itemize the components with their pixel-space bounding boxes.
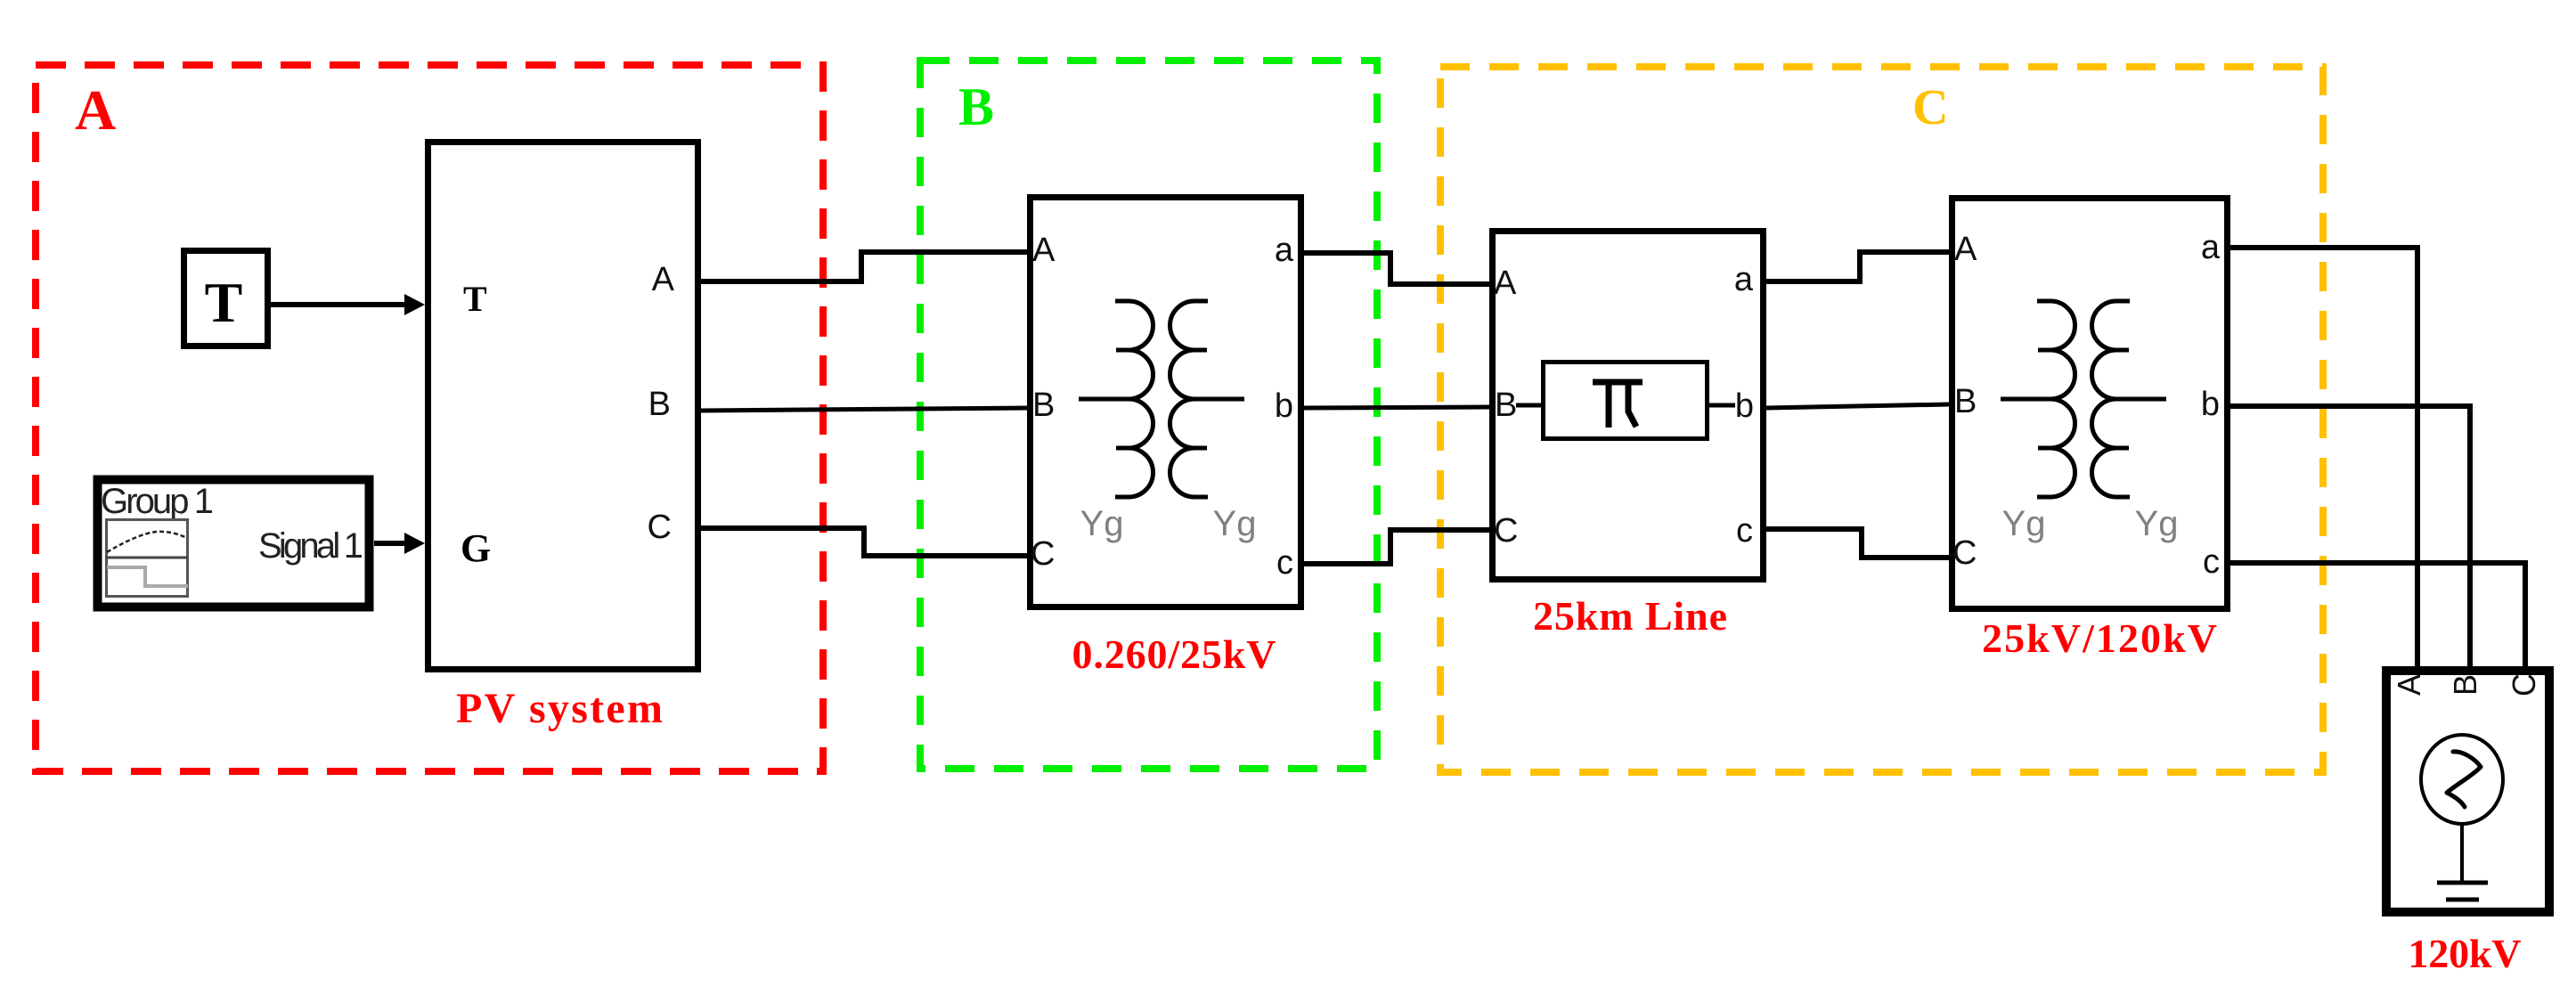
svg-text:A: A: [1494, 265, 1517, 302]
wire transformer2 c to source C: [2230, 563, 2525, 672]
wire Signal 1 to PV system G input: [374, 541, 410, 546]
svg-text:b: b: [1275, 387, 1293, 425]
wire PV A to transformer1 A: [700, 252, 1027, 281]
svg-text:B: B: [648, 386, 671, 423]
transformer2 secondary winding cusp ticks: [2116, 350, 2129, 448]
svg-text:Yg: Yg: [1080, 504, 1124, 543]
svg-text:a: a: [1275, 232, 1294, 269]
zone B dashed green box: [920, 61, 1377, 769]
arrowhead at PV T input: [404, 294, 425, 315]
svg-text:b: b: [1735, 387, 1754, 425]
pi symbol: [1593, 382, 1643, 428]
svg-text:B: B: [1495, 387, 1517, 424]
svg-text:B: B: [1954, 383, 1977, 420]
wire line c to transformer2 C: [1766, 529, 1949, 558]
signal builder thumbnail step trace: [107, 567, 188, 586]
svg-text:G: G: [461, 526, 491, 570]
25km line block: [1493, 232, 1764, 580]
svg-text:A: A: [1032, 232, 1056, 269]
svg-text:B: B: [1032, 387, 1055, 424]
svg-text:25kV/120kV: 25kV/120kV: [1982, 615, 2217, 661]
120kV source block: [2386, 671, 2549, 912]
transformer1 block 0.260/25kV: [1031, 198, 1301, 607]
svg-text:C: C: [648, 509, 672, 546]
svg-text:C: C: [1912, 80, 1948, 135]
wire transformer2 b to source B: [2230, 406, 2470, 672]
AC source sine squiggle: [2447, 752, 2481, 807]
svg-text:A: A: [1954, 231, 1977, 268]
svg-text:T: T: [463, 279, 487, 319]
signal builder block Group 1: [98, 480, 370, 607]
svg-text:Yg: Yg: [1213, 504, 1257, 543]
pi section inner box: [1544, 363, 1708, 439]
svg-text:C: C: [2506, 673, 2542, 697]
transformer2 primary center lead: [2001, 397, 2050, 402]
signal builder thumbnail dashed curve trace: [107, 532, 187, 552]
wire transformer2 a to source A: [2230, 248, 2417, 672]
svg-text:c: c: [2203, 543, 2220, 581]
transformer1 primary winding: [1115, 301, 1153, 497]
wire line a to transformer2 A: [1766, 252, 1949, 281]
transformer2 block 25kV/120kV: [1952, 199, 2228, 609]
transformer1 secondary winding cusp ticks: [1194, 350, 1207, 448]
svg-text:A: A: [652, 261, 675, 298]
svg-text:0.260/25kV: 0.260/25kV: [1072, 631, 1276, 677]
ground bar 2: [2446, 898, 2479, 902]
svg-text:120kV: 120kV: [2409, 931, 2522, 976]
svg-text:Yg: Yg: [2135, 504, 2179, 543]
wire transformer1 b to line B: [1304, 407, 1489, 408]
svg-text:A: A: [2391, 674, 2427, 696]
zone A dashed red box: [36, 65, 823, 771]
arrowhead at PV G input: [404, 533, 425, 554]
wire transformer1 a to line A: [1304, 253, 1489, 284]
constant block T: [184, 251, 268, 346]
transformer1 secondary winding: [1170, 301, 1208, 497]
transformer1 primary winding cusp ticks: [1116, 350, 1129, 448]
wire PV C to transformer1 C: [700, 528, 1027, 556]
svg-text:C: C: [1952, 534, 1977, 572]
svg-text:Yg: Yg: [2002, 504, 2046, 543]
zone C dashed orange box: [1440, 67, 2323, 772]
wire line b to transformer2 B: [1766, 404, 1949, 408]
transformer2 primary winding: [2037, 301, 2075, 497]
wire PV B to transformer1 B: [700, 408, 1027, 411]
svg-text:A: A: [75, 78, 116, 142]
svg-text:Group 1: Group 1: [101, 482, 214, 521]
transformer2 secondary winding: [2091, 301, 2130, 497]
svg-text:B: B: [958, 77, 994, 136]
signal builder thumbnail divider: [105, 557, 188, 559]
ground bar 1: [2437, 881, 2488, 885]
svg-text:PV system: PV system: [456, 685, 663, 732]
signal builder thumbnail frame: [107, 520, 188, 597]
svg-text:c: c: [1276, 544, 1293, 582]
svg-text:C: C: [1031, 535, 1055, 573]
pi section left stub: [1516, 403, 1541, 408]
ground stem: [2460, 824, 2464, 883]
wire transformer1 c to line C: [1304, 530, 1489, 564]
transformer1 secondary center lead: [1194, 397, 1244, 402]
svg-text:a: a: [2201, 229, 2221, 266]
transformer2 secondary center lead: [2116, 397, 2166, 402]
AC source circle: [2421, 735, 2503, 824]
transformer1 primary center lead: [1079, 397, 1129, 402]
transformer2 primary winding cusp ticks: [2038, 350, 2050, 448]
svg-text:T: T: [205, 271, 243, 334]
PV system block: [428, 143, 698, 670]
svg-text:b: b: [2201, 386, 2220, 423]
svg-text:Signal 1: Signal 1: [258, 526, 363, 566]
wire T to PV system T input: [271, 302, 410, 307]
svg-text:a: a: [1734, 261, 1754, 298]
svg-text:B: B: [2447, 674, 2483, 696]
svg-text:C: C: [1494, 512, 1518, 550]
svg-text:25km Line: 25km Line: [1533, 593, 1727, 639]
pi section right stub: [1709, 403, 1735, 408]
svg-text:c: c: [1736, 512, 1753, 550]
